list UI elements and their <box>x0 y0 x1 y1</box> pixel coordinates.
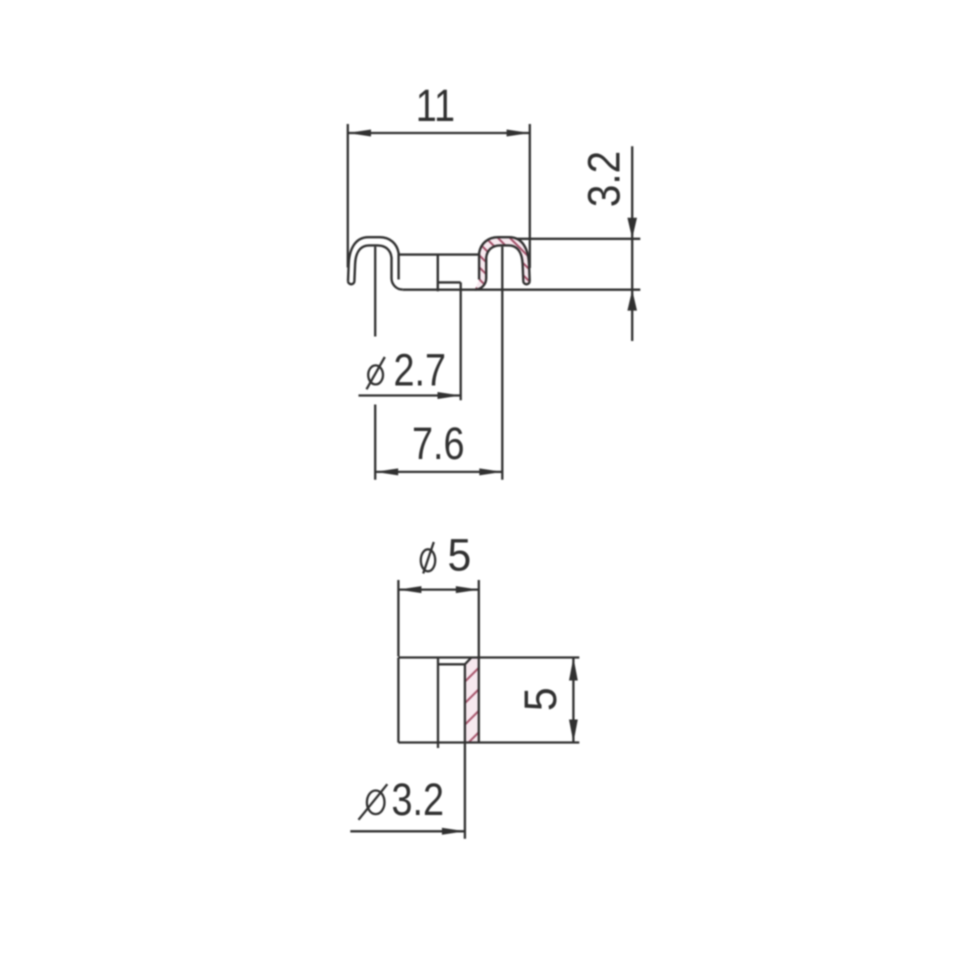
svg-text:3.2: 3.2 <box>580 151 630 207</box>
svg-text:3.2: 3.2 <box>392 774 445 825</box>
svg-text:2.7: 2.7 <box>394 344 447 395</box>
svg-text:5: 5 <box>516 687 566 711</box>
svg-text:11: 11 <box>416 80 455 131</box>
svg-text:5: 5 <box>448 531 472 581</box>
svg-text:7.6: 7.6 <box>412 418 465 469</box>
